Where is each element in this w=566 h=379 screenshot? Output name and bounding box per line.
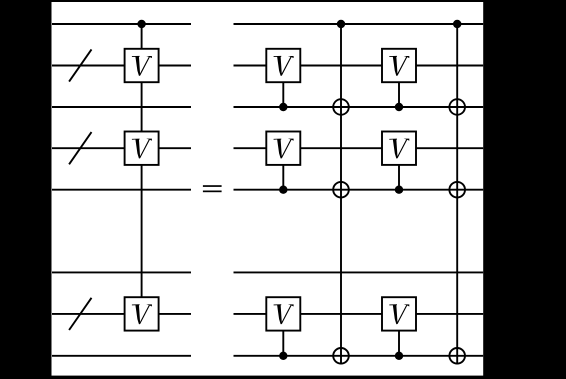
gate box V left q2 — [125, 49, 159, 82]
control dot left q1 — [137, 20, 145, 28]
control dot right q3 colA — [279, 103, 287, 111]
wire q7 left — [52, 313, 191, 315]
gate box V right colB q7 — [382, 297, 416, 330]
CNOT target q3 col2 — [449, 99, 465, 115]
CNOT target q8 col2 — [449, 348, 465, 364]
wire q7 right — [234, 313, 484, 315]
equals sign — [203, 185, 222, 192]
CNOT target q5 col1 — [333, 182, 349, 198]
control dot right q1 col2 — [453, 20, 461, 28]
V-control link column A row 1 right — [282, 66, 284, 108]
control dot right q8 colB — [395, 352, 403, 360]
wire q5 left — [52, 189, 191, 191]
wire q3 left — [52, 106, 191, 108]
wire q6 left — [52, 271, 191, 273]
wire q8 left — [52, 355, 191, 357]
CNOT vertical line column 2 right — [456, 24, 458, 365]
wire q2 left — [52, 65, 191, 67]
bus slash wire q4 left — [69, 132, 91, 164]
wire q4 left — [52, 147, 191, 149]
white canvas — [52, 2, 484, 376]
gate box V right colA q2 — [266, 49, 300, 82]
control dot right q5 colA — [279, 186, 287, 194]
wire q3 right — [234, 106, 484, 108]
gate box V left q7 — [125, 297, 159, 330]
wire q1 left — [52, 23, 191, 25]
wire q4 right — [234, 147, 484, 149]
wire q8 right — [234, 355, 484, 357]
control dot right q8 colA — [279, 352, 287, 360]
CNOT vertical line column 1 right — [340, 24, 342, 365]
CNOT target q3 col1 — [333, 99, 349, 115]
bus slash wire q2 left — [69, 49, 91, 81]
control dot right q3 colB — [395, 103, 403, 111]
wire q1 right — [234, 23, 484, 25]
V-control link column B row 1 right — [398, 66, 400, 108]
control dot right q5 colB — [395, 186, 403, 194]
V-control link column A row 3 right — [282, 314, 284, 356]
gate box V right colB q4 — [382, 132, 416, 165]
control dot right q1 col1 — [337, 20, 345, 28]
gate box V left q4 — [125, 132, 159, 165]
V-control link column B row 2 right — [398, 148, 400, 190]
gate box V right colB q2 — [382, 49, 416, 82]
wire q6 right — [234, 271, 484, 273]
V-control link column A row 2 right — [282, 148, 284, 190]
CNOT target q8 col1 — [333, 348, 349, 364]
control vertical line left — [141, 24, 143, 314]
gate box V right colA q7 — [266, 297, 300, 330]
wire q2 right — [234, 65, 484, 67]
bus slash wire q7 left — [69, 298, 91, 330]
gate box V right colA q4 — [266, 132, 300, 165]
V-control link column B row 3 right — [398, 314, 400, 356]
wire q5 right — [234, 189, 484, 191]
CNOT target q5 col2 — [449, 182, 465, 198]
